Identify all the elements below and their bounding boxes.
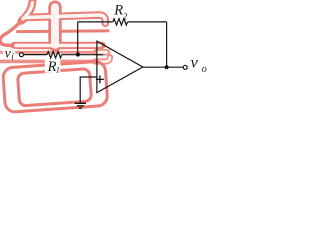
light center of vertical tube bbox=[51, 7, 59, 45]
input terminal circle bbox=[19, 53, 23, 57]
light center of diagonal-curl stroke bbox=[23, 3, 32, 19]
svg-text:2: 2 bbox=[123, 11, 128, 21]
wire R1 to op-amp inverting input (stub passes inside as minus) bbox=[62, 54, 104, 56]
svg-text:1: 1 bbox=[56, 66, 60, 75]
mouth inner boundary bbox=[17, 69, 91, 106]
light center of upper horizontal bbox=[27, 15, 105, 23]
watermark stripe2 fat right end bbox=[96, 49, 107, 56]
ground bar 1 bbox=[75, 102, 86, 104]
node A junction dot bbox=[76, 53, 80, 57]
op-amp U1 triangle bbox=[97, 41, 143, 92]
op-amp plus sign bbox=[96, 75, 104, 83]
resistor R1 zigzag bbox=[47, 52, 62, 58]
svg-text:R: R bbox=[113, 3, 123, 19]
watermark wide vertical tube bbox=[48, 7, 61, 45]
white patch behind v_i label bbox=[3, 49, 15, 60]
light center of stripe3 hook bbox=[97, 57, 110, 61]
light center of stripe2 end bbox=[98, 51, 107, 54]
watermark thin horizontal at cells top bbox=[18, 29, 109, 33]
watermark pink outline strokes bbox=[0, 2, 110, 113]
svg-text:o: o bbox=[202, 64, 207, 75]
white patch behind R1 label bbox=[45, 57, 61, 72]
wire corner down to output node bbox=[166, 22, 168, 67]
watermark stripe3 with up hook bbox=[0, 60, 97, 64]
wire feedback riser from node A bbox=[77, 22, 79, 55]
watermark mouth box, slightly rotated bbox=[3, 61, 108, 113]
watermark upper horizontal with right hook bbox=[27, 15, 105, 23]
ground bar 2 bbox=[77, 105, 84, 107]
watermark stripe3 fat hook end bbox=[95, 57, 110, 61]
wire R2 to top-right corner bbox=[128, 21, 167, 23]
wire op-amp output to terminal bbox=[143, 66, 183, 68]
ground bar 3 bbox=[79, 107, 82, 109]
svg-text:v: v bbox=[191, 54, 199, 71]
output terminal circle bbox=[183, 65, 187, 69]
mouth outer boundary bbox=[3, 61, 108, 113]
watermark diagonal stroke with curl into long stripe bbox=[22, 2, 33, 21]
resistor R2 zigzag bbox=[113, 19, 128, 25]
circuit black layer bbox=[23, 19, 183, 109]
wire input terminal to R1 bbox=[23, 54, 47, 56]
wire feedback top run to R2 bbox=[78, 21, 113, 23]
watermark stripe2 bbox=[0, 51, 100, 54]
output node junction dot bbox=[165, 65, 169, 69]
wire noninverting input to ground stem bbox=[80, 77, 97, 103]
